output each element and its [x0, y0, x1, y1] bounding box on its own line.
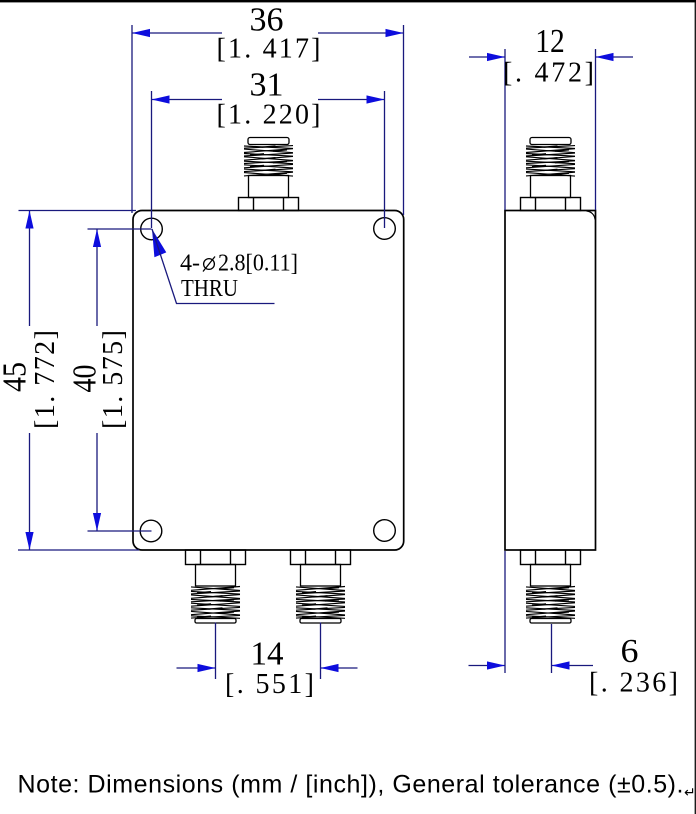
svg-text:[1. 575]: [1. 575]: [98, 330, 129, 429]
svg-text:[. 551]: [. 551]: [225, 669, 314, 700]
dim 14 centerline left: [215, 623, 217, 680]
svg-text:2.8[0.11]: 2.8[0.11]: [218, 251, 298, 277]
dim 12 dimension line right: [596, 56, 634, 58]
side view body: [505, 211, 596, 551]
dim 14 dimension line right: [321, 667, 358, 669]
connector threads: [526, 146, 575, 148]
svg-text:[1. 417]: [1. 417]: [217, 34, 321, 65]
connector barrel: [196, 565, 236, 587]
dim 12 extension line right: [595, 49, 597, 210]
svg-text:45: 45: [0, 362, 34, 392]
svg-text:[1. 220]: [1. 220]: [217, 100, 321, 131]
dim 14 dimension line left: [177, 667, 216, 669]
connector threads: [244, 146, 293, 148]
connector hex nut: [239, 198, 299, 211]
svg-text:14: 14: [251, 636, 284, 673]
hole top-right: [374, 218, 396, 240]
connector barrel: [249, 176, 289, 198]
dim 40 extension line bottom: [88, 530, 152, 532]
svg-text:4-: 4-: [180, 251, 200, 277]
connector threads: [191, 587, 240, 591]
svg-text:[. 472]: [. 472]: [503, 58, 594, 89]
connector barrel: [531, 176, 571, 198]
connector hex nut: [186, 550, 246, 565]
dim 36 extension line right: [403, 25, 405, 215]
front view body: [133, 211, 404, 551]
connector bottom cap: [195, 619, 236, 624]
svg-text:[. 236]: [. 236]: [589, 668, 678, 699]
hole top-left: [141, 218, 163, 240]
top border line: [0, 0, 696, 2]
connector threads: [526, 587, 575, 591]
dim 45 extension line top: [19, 210, 137, 212]
hole callout leader line: [152, 229, 275, 304]
connector hex nut: [291, 550, 351, 565]
dim 12 dimension line left: [469, 56, 505, 58]
connector top cap: [530, 138, 571, 145]
connector bottom cap: [300, 619, 341, 624]
hole callout leader arrow: [152, 229, 166, 257]
dim 14 centerline right: [320, 623, 322, 680]
svg-text:THRU: THRU: [181, 276, 238, 302]
dim 36 dimension line: [132, 32, 222, 34]
dim 31 dimension line: [152, 99, 223, 101]
dim 36 extension line left: [131, 25, 133, 213]
dim 45 extension line bottom: [18, 549, 139, 551]
svg-text:Note: Dimensions (mm / [inch]): Note: Dimensions (mm / [inch]), General …: [18, 771, 684, 799]
dim 31 extension line left: [151, 91, 153, 228]
svg-text:↵: ↵: [684, 784, 696, 800]
dim 6 centerline: [551, 624, 553, 673]
connector top cap: [248, 138, 289, 145]
dim 40 dimension line: [96, 229, 98, 326]
dim 6 dimension line left: [469, 665, 506, 667]
connector hex nut: [521, 198, 581, 211]
connector hex nut: [521, 550, 581, 565]
hole bottom-right: [374, 520, 396, 542]
connector barrel: [301, 565, 341, 587]
dim 31 extension line right: [384, 91, 386, 228]
svg-text:6: 6: [621, 633, 639, 670]
svg-text:[1. 772]: [1. 772]: [30, 330, 61, 429]
dim 12 extension line left: [504, 49, 506, 210]
svg-text:12: 12: [535, 23, 565, 60]
hole bottom-left: [140, 520, 162, 542]
svg-text:31: 31: [250, 67, 284, 104]
dim 45 dimension line: [29, 211, 31, 327]
right window border line: [695, 0, 696, 814]
diameter symbol: [204, 259, 215, 270]
dim 6 extension line: [504, 551, 506, 673]
connector barrel: [531, 565, 571, 587]
side body corner edge arc: [587, 211, 596, 220]
connector threads: [296, 587, 345, 591]
dim 6 dimension line right: [552, 665, 594, 667]
connector bottom cap: [530, 619, 571, 624]
dim 40 extension line top: [88, 228, 152, 230]
